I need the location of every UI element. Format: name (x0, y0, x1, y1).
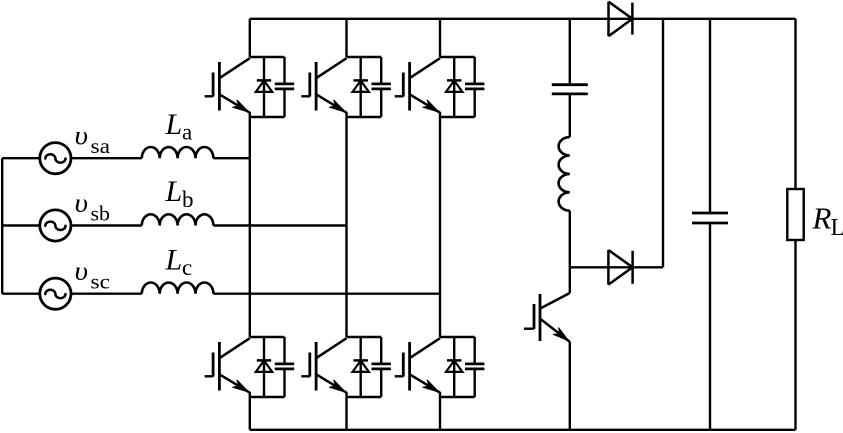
svg-text:R: R (812, 200, 832, 235)
svg-text:sc: sc (91, 270, 111, 294)
svg-text:υ: υ (75, 189, 89, 218)
svg-text:L: L (165, 108, 183, 141)
svg-text:υ: υ (75, 121, 89, 150)
svg-text:L: L (165, 243, 183, 276)
svg-text:υ: υ (75, 257, 89, 286)
svg-text:sa: sa (91, 134, 111, 158)
svg-text:L: L (831, 215, 843, 241)
svg-text:c: c (182, 255, 192, 280)
svg-text:a: a (182, 120, 192, 145)
svg-text:L: L (165, 175, 183, 208)
svg-text:sb: sb (91, 201, 111, 225)
svg-text:b: b (182, 187, 194, 212)
